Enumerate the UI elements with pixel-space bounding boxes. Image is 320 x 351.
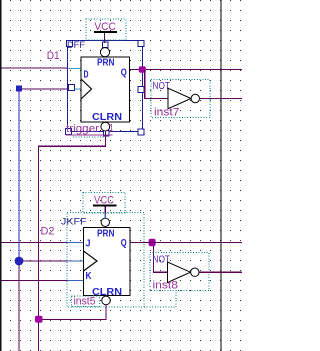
- node blue round junction: [15, 257, 24, 266]
- NOT1 bubble: [191, 94, 199, 102]
- wire trigger vertical: [38, 146, 39, 351]
- wire D2 J horizontal: [2, 242, 68, 243]
- VCC1 power bar: [94, 31, 117, 33]
- svg-text:trigger: trigger: [66, 123, 99, 135]
- DFF clock chevron: [81, 79, 92, 99]
- wire into NOT1: [144, 98, 168, 99]
- selected wire blue vertical: [18, 92, 19, 261]
- wire CLRN2 riser: [106, 305, 107, 320]
- wire CLRN down from bubble: [105, 131, 106, 146]
- DFF handle bottom-mid: [104, 131, 110, 137]
- wire Q2 junction to right edge: [149, 242, 243, 243]
- VCC1 wire down: [104, 33, 105, 43]
- svg-text:1: 1: [109, 123, 114, 135]
- Q2 output junction: [149, 239, 156, 247]
- dotted vertical segment: [175, 293, 177, 308]
- DFF handle mid-left clock pin box: [69, 85, 75, 91]
- svg-text:Q: Q: [121, 68, 127, 79]
- VCC2 power bar: [93, 204, 117, 206]
- trigger underline: [66, 135, 113, 136]
- NOT2 triangle: [168, 262, 191, 283]
- JKFF pin stub J: [67, 242, 84, 243]
- svg-text:DFF: DFF: [67, 40, 85, 51]
- wire JKFF clock from node: [23, 260, 67, 261]
- VCC2 dotted box: [83, 193, 125, 214]
- svg-text:K: K: [86, 271, 93, 282]
- DFF handle top-mid: [103, 42, 109, 48]
- wire trigger horizontal: [38, 146, 106, 147]
- NOT1 triangle: [168, 88, 191, 109]
- inst5 label dotted box: [72, 296, 100, 307]
- wire K horizontal: [2, 280, 68, 281]
- JKFF pin stub clock: [67, 260, 84, 261]
- wire bottom horizontal: [38, 319, 107, 320]
- bottom junction blob: [35, 316, 43, 323]
- DFF inner rect: [81, 57, 130, 122]
- wire junction square to DFF clock: [19, 88, 69, 89]
- JKFF clock chevron: [84, 251, 98, 271]
- DFF PRN bubble: [100, 48, 109, 57]
- svg-text:JKFF: JKFF: [61, 217, 87, 228]
- VCC1 dotted box: [86, 19, 126, 40]
- svg-text:D: D: [84, 70, 89, 81]
- JKFF wire Q inner to junction: [130, 242, 149, 243]
- wire drop to NOT1: [144, 70, 145, 99]
- JKFF PRN bubble: [101, 218, 109, 226]
- wire vertical continues purple to bottom: [18, 265, 19, 351]
- wire drop to NOT2: [153, 246, 154, 272]
- svg-text:inst5: inst5: [74, 295, 96, 307]
- VCC2 stub blue: [105, 213, 106, 219]
- JKFF dotted outer box: [67, 213, 144, 308]
- Q1 output junction: [139, 66, 146, 73]
- svg-text:PRN: PRN: [97, 228, 115, 240]
- svg-text:J: J: [86, 239, 91, 250]
- NOT2 output wire: [199, 272, 242, 273]
- svg-text:PRN: PRN: [97, 56, 115, 68]
- DFF handle mid-right: [138, 87, 144, 93]
- DFF handle bottom-right: [138, 129, 144, 135]
- trigger select dotted: [73, 136, 106, 138]
- svg-text:Q: Q: [121, 238, 127, 249]
- svg-text:CLRN: CLRN: [92, 111, 122, 123]
- wire Q1 to right edge: [146, 69, 242, 70]
- NOT2 dotted box: [150, 253, 209, 291]
- dotted segment right of JKFF box: [144, 306, 177, 308]
- NOT1 dotted box: [151, 80, 210, 118]
- NOT2 bubble: [191, 268, 199, 276]
- svg-text:inst8: inst8: [153, 280, 179, 292]
- svg-text:inst7: inst7: [154, 107, 180, 119]
- vertical black schematic line: [221, 0, 222, 351]
- DFF handle bottom-left: [66, 129, 72, 135]
- VCC2 wire down: [105, 206, 106, 213]
- JKFF inner rect: [84, 228, 131, 296]
- NOT1 output wire: [200, 98, 243, 99]
- DFF CLRN bubble: [101, 122, 110, 131]
- DFF handle top-left: [67, 41, 73, 47]
- DFF outer box: [68, 41, 143, 132]
- wire D1 input horizontal: [2, 68, 69, 69]
- svg-text:D1: D1: [47, 50, 60, 62]
- DFF pin stub D: [69, 68, 82, 69]
- DFF pin stub clock: [75, 88, 82, 89]
- JKFF CLRN bubble: [102, 296, 111, 305]
- DFF handle top-right: [138, 40, 144, 46]
- selected wire handle square: [16, 86, 22, 92]
- window border left: [0, 0, 2, 351]
- wire into NOT2: [153, 272, 168, 273]
- svg-text:D2: D2: [41, 225, 55, 237]
- DFF wire Q inner to junction: [130, 69, 139, 70]
- JKFF pin stub K: [67, 280, 84, 281]
